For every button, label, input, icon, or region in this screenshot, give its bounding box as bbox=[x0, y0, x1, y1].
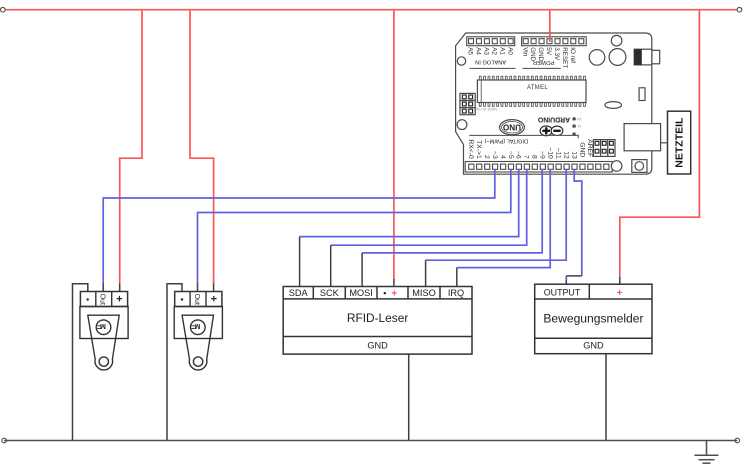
svg-text:NETZTEIL: NETZTEIL bbox=[674, 117, 686, 168]
svg-text:Vin: Vin bbox=[521, 47, 528, 56]
svg-text:ARDUINO: ARDUINO bbox=[537, 116, 570, 123]
svg-text:12: 12 bbox=[562, 151, 569, 159]
svg-text:+: + bbox=[116, 294, 122, 306]
svg-text:TX->1: TX->1 bbox=[475, 140, 482, 159]
svg-text:POWER: POWER bbox=[533, 59, 555, 65]
svg-text:Out: Out bbox=[99, 294, 106, 305]
svg-text:M: M bbox=[194, 322, 200, 329]
svg-text:M: M bbox=[100, 322, 106, 329]
svg-text:GND: GND bbox=[578, 142, 585, 157]
svg-text:+: + bbox=[211, 294, 217, 306]
svg-text:7: 7 bbox=[523, 155, 530, 159]
svg-text:MADE IN ITALY: MADE IN ITALY bbox=[472, 107, 497, 111]
svg-text:IO ref: IO ref bbox=[569, 47, 576, 63]
svg-text:8: 8 bbox=[531, 155, 538, 159]
svg-text:A5: A5 bbox=[467, 47, 474, 55]
svg-text:AREF: AREF bbox=[586, 139, 593, 157]
svg-text:2: 2 bbox=[483, 155, 490, 159]
svg-text:SDA: SDA bbox=[289, 288, 309, 298]
svg-text:RESET: RESET bbox=[561, 47, 568, 68]
svg-text:ATMEL: ATMEL bbox=[527, 85, 548, 91]
svg-text:~10: ~10 bbox=[547, 147, 554, 159]
svg-text:~5: ~5 bbox=[507, 151, 514, 159]
svg-text:A0: A0 bbox=[506, 47, 513, 55]
svg-text:~11: ~11 bbox=[554, 148, 561, 159]
svg-text:A2: A2 bbox=[490, 47, 497, 55]
svg-text:A3: A3 bbox=[483, 47, 490, 55]
svg-text:~3: ~3 bbox=[491, 151, 498, 159]
svg-text:3.3V: 3.3V bbox=[553, 47, 560, 61]
svg-text:+: + bbox=[617, 288, 623, 299]
svg-text:IRQ: IRQ bbox=[448, 288, 464, 298]
svg-text:ANALOG IN: ANALOG IN bbox=[475, 59, 506, 65]
svg-text:4: 4 bbox=[499, 155, 506, 159]
svg-text:+: + bbox=[391, 288, 397, 299]
svg-text:5V: 5V bbox=[545, 47, 552, 56]
svg-text:GND: GND bbox=[583, 340, 604, 350]
svg-text:~6: ~6 bbox=[515, 151, 522, 159]
svg-text:UNO: UNO bbox=[503, 122, 521, 131]
svg-text:RFID-Leser: RFID-Leser bbox=[347, 311, 408, 325]
svg-text:A1: A1 bbox=[498, 47, 505, 55]
svg-text:MOSI: MOSI bbox=[349, 288, 372, 298]
svg-text:Bewegungsmelder: Bewegungsmelder bbox=[543, 312, 643, 326]
svg-text:DIGITAL (PWM~): DIGITAL (PWM~) bbox=[484, 137, 527, 143]
svg-text:13: 13 bbox=[570, 151, 577, 159]
svg-text:OUTPUT: OUTPUT bbox=[544, 288, 581, 298]
svg-text:SCK: SCK bbox=[320, 288, 340, 298]
svg-text:A4: A4 bbox=[475, 47, 482, 55]
svg-text:MISO: MISO bbox=[412, 288, 435, 298]
svg-text:Out: Out bbox=[193, 294, 200, 305]
svg-text:RX<-0: RX<-0 bbox=[467, 139, 474, 159]
svg-text:GND: GND bbox=[367, 341, 388, 351]
svg-text:~9: ~9 bbox=[539, 151, 546, 159]
